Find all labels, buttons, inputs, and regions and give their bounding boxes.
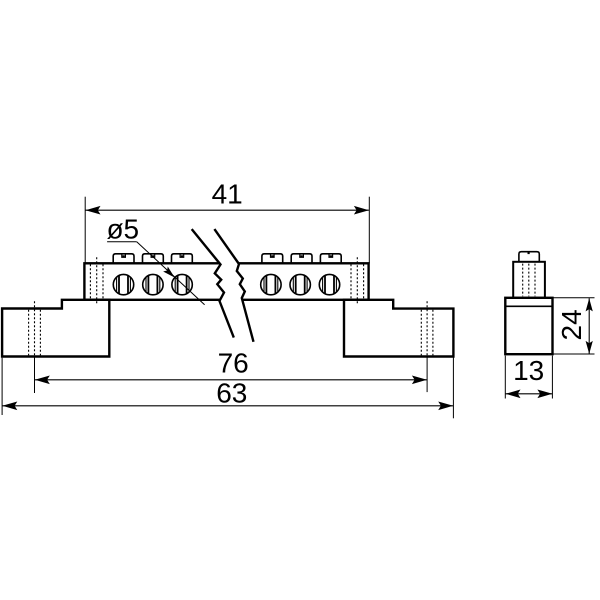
dimension 13 extension lines bbox=[504, 356, 506, 399]
terminal tab T1 bbox=[113, 254, 134, 264]
dimension 24 extension lines bbox=[554, 297, 595, 299]
screw S5 bbox=[290, 274, 310, 294]
screw S4 bbox=[261, 274, 281, 294]
svg-text:24: 24 bbox=[556, 309, 587, 340]
left mounting foot outline bbox=[2, 300, 109, 357]
label ø5 leader bbox=[107, 241, 137, 243]
centre line, right foot hole bbox=[426, 301, 428, 356]
side view terminal tab bbox=[519, 252, 539, 262]
dimension 13 line bbox=[506, 393, 553, 395]
centre line, bar right hole bbox=[356, 257, 358, 305]
hidden hole lines, left foot bbox=[28, 310, 30, 356]
terminal tab T6 bbox=[320, 254, 341, 264]
screw S1 bbox=[113, 274, 133, 294]
dimension 76 extension lines bbox=[34, 357, 36, 394]
side view block step line bbox=[506, 305, 551, 307]
hidden hole lines, bar left end bbox=[89, 264, 91, 299]
svg-text:76: 76 bbox=[218, 347, 249, 378]
hidden hole lines, bar right end bbox=[350, 264, 352, 299]
break line left bbox=[192, 229, 234, 338]
svg-text:41: 41 bbox=[212, 179, 243, 210]
terminal tab T5 bbox=[291, 254, 312, 264]
busbar body outline bbox=[84, 263, 368, 300]
dimension 63 line bbox=[2, 405, 453, 407]
svg-text:ø5: ø5 bbox=[106, 214, 139, 245]
svg-text:63: 63 bbox=[216, 378, 247, 409]
right mounting foot outline bbox=[344, 300, 453, 357]
break line right bbox=[214, 229, 253, 342]
terminal tab T3 bbox=[172, 254, 193, 264]
dimension 41 line bbox=[86, 209, 369, 211]
dimension 76 line bbox=[35, 379, 427, 381]
dimension 63 extension lines bbox=[1, 358, 3, 415]
dimension 41 extension lines bbox=[84, 197, 86, 264]
screw S2 bbox=[143, 274, 163, 294]
side view hidden screw hole lines bbox=[522, 264, 524, 297]
break gap (white) bbox=[192, 229, 254, 342]
side view screw body bbox=[513, 262, 545, 298]
svg-text:13: 13 bbox=[513, 355, 544, 386]
terminal tab T2 bbox=[143, 254, 164, 264]
hidden hole lines, right foot bbox=[420, 310, 422, 356]
centre line, bar left hole bbox=[96, 257, 98, 305]
terminal tab T4 bbox=[262, 254, 283, 264]
screw S6 bbox=[319, 274, 339, 294]
screw S3 bbox=[172, 274, 192, 294]
side view main block bbox=[505, 298, 552, 354]
centre line, left foot hole bbox=[34, 301, 36, 356]
dimension 24 line bbox=[588, 298, 590, 354]
